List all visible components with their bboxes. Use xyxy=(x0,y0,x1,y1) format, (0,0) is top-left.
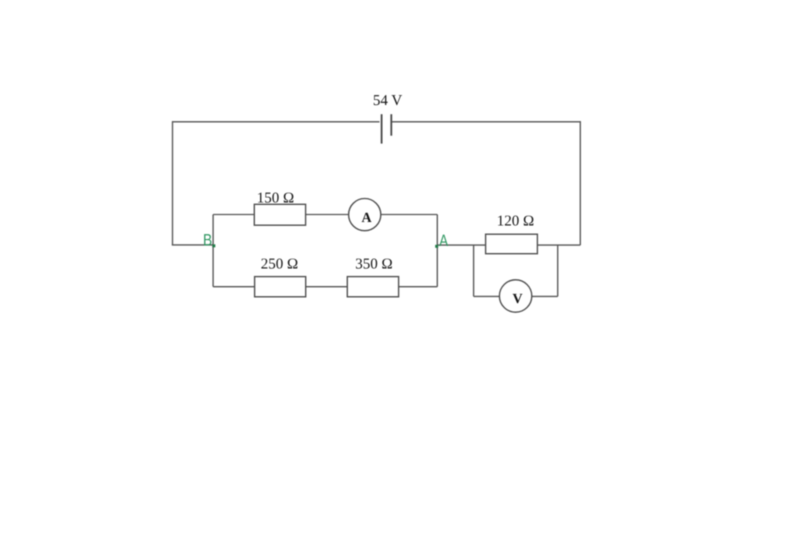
svg-text:A: A xyxy=(439,232,448,250)
wire left vertical of parallel section xyxy=(212,215,214,287)
ammeter A1 circle xyxy=(349,199,381,231)
svg-text:54 V: 54 V xyxy=(373,93,402,109)
wire voltmeter branch left vertical xyxy=(473,245,475,296)
node B dot xyxy=(212,244,215,247)
wire bottom branch right segment xyxy=(399,286,438,288)
wire top-left horizontal xyxy=(173,121,380,123)
wire top branch middle segment xyxy=(306,214,349,216)
wire node A to 120 ohm resistor xyxy=(437,244,485,246)
node A dot xyxy=(435,245,438,248)
wire right vertical of parallel section xyxy=(436,215,438,287)
wire top-right horizontal xyxy=(391,121,580,123)
svg-text:A: A xyxy=(361,211,372,226)
wire voltmeter branch right vertical xyxy=(557,245,559,296)
battery B1 long plate xyxy=(381,114,383,143)
battery B1 short plate xyxy=(390,114,392,136)
svg-text:350 Ω: 350 Ω xyxy=(355,257,392,273)
wire left vertical of outer loop xyxy=(172,121,174,245)
resistor R4 120 ohm box xyxy=(486,234,538,254)
svg-text:120 Ω: 120 Ω xyxy=(497,214,534,230)
resistor R2 250 ohm box xyxy=(255,277,306,297)
wire bottom branch middle segment xyxy=(306,286,348,288)
wire top branch right segment xyxy=(381,214,437,216)
wire feed to node B xyxy=(172,244,213,246)
wire voltmeter branch right horizontal xyxy=(532,295,558,297)
wire right vertical of outer loop xyxy=(579,121,581,245)
wire top branch left segment xyxy=(213,214,254,216)
voltmeter V1 circle xyxy=(499,280,531,312)
svg-text:V: V xyxy=(512,292,522,307)
svg-text:B: B xyxy=(203,231,212,249)
svg-text:250 Ω: 250 Ω xyxy=(261,257,298,273)
wire 120 ohm resistor to right vertical xyxy=(537,244,580,246)
wire voltmeter branch left horizontal xyxy=(474,295,500,297)
svg-text:150 Ω: 150 Ω xyxy=(257,190,294,206)
resistor R1 150 ohm box xyxy=(254,204,305,225)
wire bottom branch left segment xyxy=(213,286,255,288)
resistor R3 350 ohm box xyxy=(347,277,398,297)
